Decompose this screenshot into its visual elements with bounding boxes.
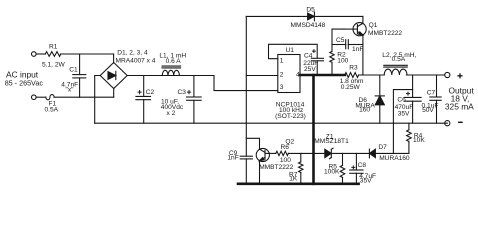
capacitor C3 bbox=[193, 76, 195, 98]
wire pin1 loop bbox=[269, 44, 318, 58]
wire bbox=[54, 96, 114, 98]
resistor R1 bbox=[45, 52, 60, 57]
plus C6 bbox=[406, 92, 410, 96]
plus C4 bbox=[312, 49, 316, 53]
thick ground row bbox=[238, 183, 359, 186]
svg-text:5.1, 2W: 5.1, 2W bbox=[42, 61, 65, 68]
svg-text:C5: C5 bbox=[336, 37, 345, 44]
svg-text:D5: D5 bbox=[306, 6, 315, 13]
svg-text:100: 100 bbox=[337, 57, 348, 64]
capacitor C8 bbox=[355, 153, 357, 170]
wire Q2 emitter bbox=[259, 161, 261, 184]
svg-text:0.25W: 0.25W bbox=[341, 84, 361, 91]
svg-text:MMBT2222: MMBT2222 bbox=[368, 30, 402, 37]
resistor R3 bbox=[345, 73, 359, 78]
svg-text:D1, 2, 3, 4: D1, 2, 3, 4 bbox=[117, 50, 148, 57]
svg-text:Q1: Q1 bbox=[369, 22, 378, 29]
AC input terminal top bbox=[32, 52, 37, 57]
minus output bbox=[458, 121, 463, 123]
capacitor C5 bbox=[332, 44, 346, 46]
capacitor C2 bbox=[143, 76, 145, 97]
svg-text:3: 3 bbox=[280, 84, 284, 91]
svg-text:x 2: x 2 bbox=[167, 110, 176, 117]
vertical feed line from D5 anode bbox=[245, 16, 247, 156]
plus C8 bbox=[351, 165, 355, 169]
wire bbox=[36, 96, 46, 98]
resistor R5 bbox=[342, 153, 344, 165]
svg-text:R6: R6 bbox=[281, 144, 290, 151]
svg-text:2: 2 bbox=[280, 71, 284, 78]
capacitor C9 bbox=[240, 155, 252, 157]
bottom rail bbox=[95, 122, 448, 124]
svg-text:C6: C6 bbox=[397, 97, 406, 104]
AC input terminal bottom bbox=[32, 95, 37, 100]
thick wire pin4 row bbox=[300, 74, 345, 77]
wire bridge bottom to AC low bbox=[113, 89, 115, 98]
svg-text:25V: 25V bbox=[304, 66, 316, 73]
capacitor C7 bbox=[436, 75, 438, 97]
resistor R2 bbox=[330, 51, 334, 62]
plus output bbox=[457, 73, 462, 78]
wire pin 2 segment bbox=[246, 75, 277, 77]
capacitor C1 bbox=[79, 54, 81, 75]
wire step to pin 3 bbox=[214, 76, 278, 91]
svg-text:(SOT-223): (SOT-223) bbox=[275, 113, 306, 120]
plus C2 bbox=[138, 90, 142, 94]
svg-text:C3: C3 bbox=[178, 89, 187, 96]
inductor L2 bbox=[384, 64, 408, 66]
svg-text:160: 160 bbox=[359, 107, 370, 114]
DC+ rail bbox=[127, 75, 214, 77]
svg-text:MURA160: MURA160 bbox=[379, 155, 410, 162]
diode D7 bbox=[368, 149, 370, 158]
zener Z1 bbox=[325, 149, 332, 157]
transistor Q2 bbox=[256, 148, 269, 161]
svg-text:1nF: 1nF bbox=[227, 154, 238, 161]
svg-text:100: 100 bbox=[280, 157, 291, 164]
svg-text:1nF: 1nF bbox=[352, 46, 363, 53]
svg-text:C7: C7 bbox=[427, 90, 436, 97]
plus C3 bbox=[187, 90, 191, 94]
resistor R4 bbox=[408, 123, 410, 130]
svg-text:C1: C1 bbox=[69, 66, 78, 73]
wire Q1 base vertical bbox=[332, 29, 344, 51]
capacitor C4 bbox=[311, 57, 323, 59]
svg-text:4: 4 bbox=[296, 72, 300, 79]
svg-text:0.5A: 0.5A bbox=[392, 56, 406, 63]
svg-text:U1: U1 bbox=[286, 47, 295, 54]
wire bridge left to DC minus rail bbox=[95, 76, 101, 124]
resistor R6 bbox=[276, 151, 289, 155]
feedback row wire bbox=[270, 152, 276, 154]
bridge rectifier D1,2,3,4 bbox=[100, 63, 127, 89]
svg-text:MMSZ18T1: MMSZ18T1 bbox=[314, 138, 349, 145]
resistor R7 bbox=[300, 153, 302, 162]
svg-text:"x": "x" bbox=[66, 86, 75, 93]
wire bbox=[36, 53, 45, 55]
diode D6 bbox=[379, 75, 381, 96]
wire switch node bbox=[359, 74, 385, 76]
output - terminal bbox=[445, 121, 450, 126]
wire bbox=[61, 53, 114, 55]
svg-text:C4: C4 bbox=[304, 53, 313, 60]
transistor Q1 bbox=[353, 23, 366, 36]
capacitor C6 bbox=[412, 75, 414, 97]
op-amp U1 NCP1014 box bbox=[278, 55, 300, 93]
top aux rail with corner bbox=[246, 15, 307, 17]
svg-text:35V: 35V bbox=[398, 110, 410, 117]
svg-text:MMSD4148: MMSD4148 bbox=[291, 22, 326, 29]
fuse F1 bbox=[46, 95, 54, 100]
svg-text:0.6 A: 0.6 A bbox=[166, 58, 182, 65]
svg-text:325 mA: 325 mA bbox=[445, 102, 474, 112]
svg-text:35V: 35V bbox=[360, 178, 372, 185]
thick bus vertical bbox=[312, 75, 315, 184]
plus/minus polarity marks bbox=[138, 49, 463, 169]
svg-text:R1: R1 bbox=[49, 43, 58, 50]
svg-text:C2: C2 bbox=[146, 89, 155, 96]
svg-text:D7: D7 bbox=[378, 144, 387, 151]
wire output sense tap bbox=[393, 90, 412, 154]
wire bbox=[113, 54, 115, 63]
svg-text:85 - 265Vac: 85 - 265Vac bbox=[5, 79, 44, 88]
wire Q2 collector bbox=[246, 138, 259, 149]
svg-text:50V: 50V bbox=[422, 107, 434, 114]
svg-text:100K: 100K bbox=[324, 168, 340, 175]
svg-text:MMBT2222: MMBT2222 bbox=[259, 164, 293, 171]
inductor L1 bbox=[162, 65, 181, 67]
svg-text:C8: C8 bbox=[358, 162, 367, 169]
svg-text:R3: R3 bbox=[349, 64, 358, 71]
svg-text:MRA4007 x 4: MRA4007 x 4 bbox=[116, 57, 156, 64]
svg-text:1K: 1K bbox=[289, 176, 298, 183]
svg-text:0.5A: 0.5A bbox=[45, 106, 59, 113]
output + terminal bbox=[445, 72, 450, 77]
wire output rail bbox=[406, 74, 444, 76]
svg-text:10K: 10K bbox=[413, 137, 425, 144]
svg-text:1: 1 bbox=[280, 58, 284, 65]
diode D5 bbox=[308, 13, 315, 20]
